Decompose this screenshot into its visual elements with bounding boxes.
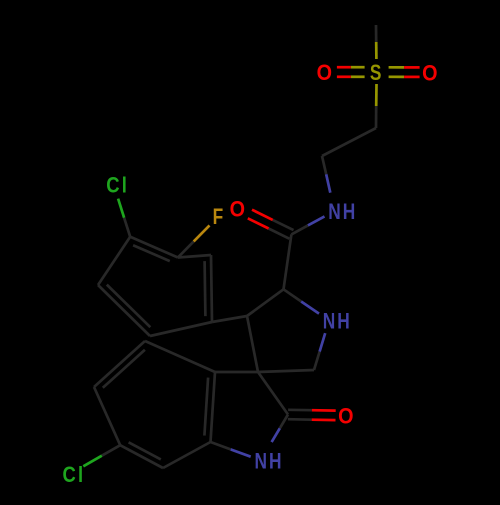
svg-text:O: O xyxy=(338,405,356,429)
svg-text:Cl: Cl xyxy=(106,173,129,198)
svg-text:F: F xyxy=(213,205,226,230)
svg-text:NH: NH xyxy=(255,449,284,474)
svg-text:NH: NH xyxy=(328,200,357,225)
svg-text:NH: NH xyxy=(323,310,352,335)
svg-text:O: O xyxy=(230,197,248,221)
svg-text:O: O xyxy=(317,61,335,85)
svg-text:Cl: Cl xyxy=(63,462,86,487)
svg-text:S: S xyxy=(370,61,384,86)
svg-text:O: O xyxy=(422,61,440,85)
